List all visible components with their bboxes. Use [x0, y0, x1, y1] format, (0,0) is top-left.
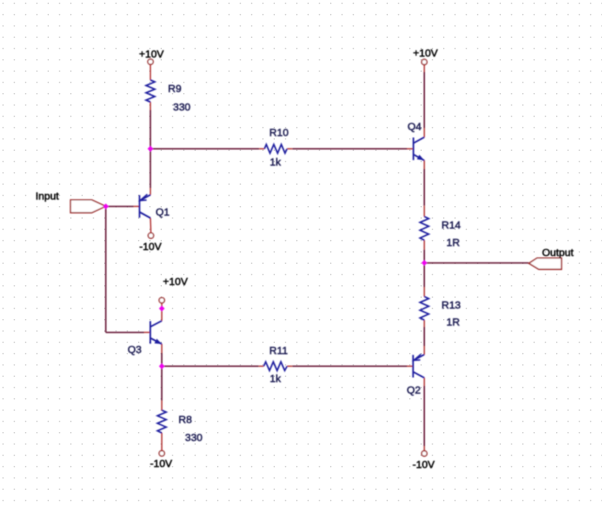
- svg-text:R10: R10: [269, 127, 288, 139]
- svg-text:330: 330: [173, 101, 191, 113]
- svg-text:-10V: -10V: [139, 241, 161, 253]
- svg-text:330: 330: [185, 432, 203, 444]
- svg-text:Q3: Q3: [128, 344, 142, 356]
- svg-text:R8: R8: [179, 414, 193, 426]
- svg-text:1R: 1R: [446, 237, 460, 249]
- svg-text:R11: R11: [269, 345, 288, 357]
- svg-text:1k: 1k: [270, 373, 282, 385]
- svg-text:+10V: +10V: [413, 48, 438, 60]
- svg-text:R14: R14: [442, 219, 461, 231]
- svg-text:Q1: Q1: [156, 207, 170, 219]
- svg-text:1k: 1k: [270, 157, 282, 169]
- svg-text:Q2: Q2: [407, 384, 421, 396]
- svg-text:Input: Input: [36, 191, 59, 203]
- svg-text:Output: Output: [542, 247, 574, 259]
- svg-text:+10V: +10V: [163, 276, 188, 288]
- svg-text:-10V: -10V: [413, 459, 435, 471]
- svg-text:+10V: +10V: [139, 48, 164, 60]
- svg-text:1R: 1R: [446, 316, 460, 328]
- svg-text:-10V: -10V: [150, 458, 172, 470]
- svg-text:R13: R13: [442, 299, 461, 311]
- svg-text:R9: R9: [168, 83, 182, 95]
- svg-text:Q4: Q4: [408, 121, 422, 133]
